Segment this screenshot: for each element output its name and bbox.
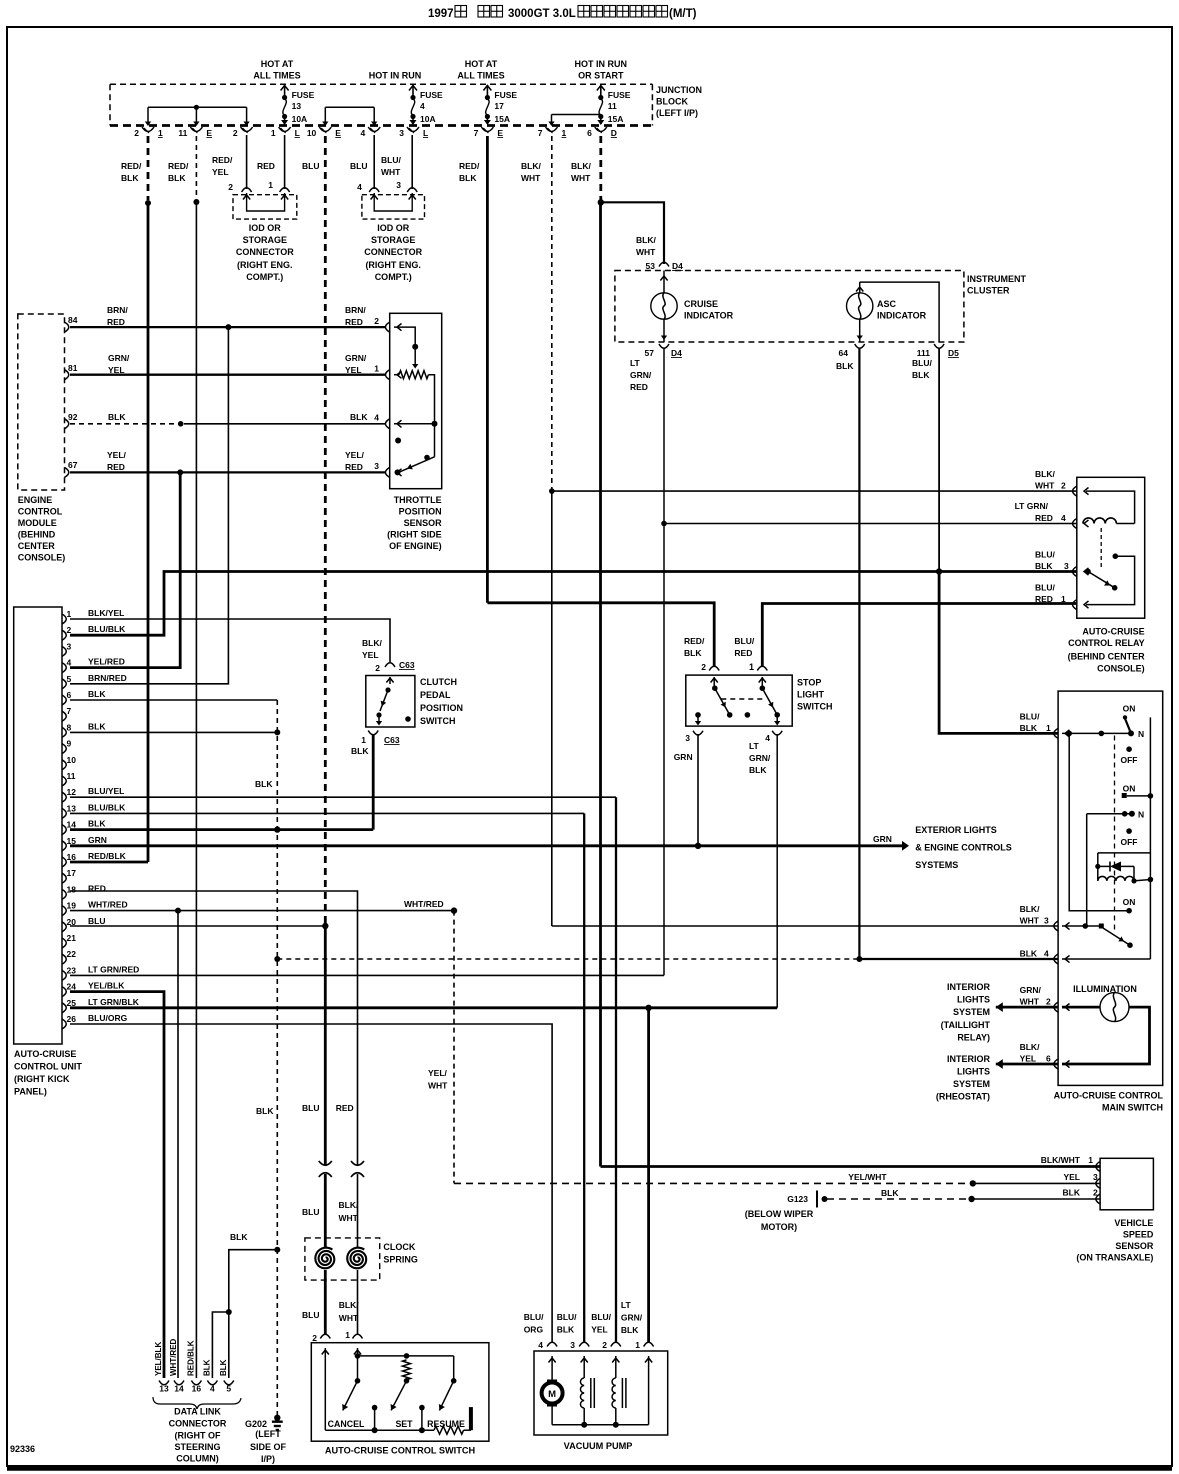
svg-text:4: 4 — [1061, 513, 1066, 523]
svg-text:ILLUMINATION: ILLUMINATION — [1073, 984, 1137, 994]
svg-text:BLK/: BLK/ — [362, 638, 382, 648]
svg-text:BLK: BLK — [1063, 1188, 1081, 1198]
svg-text:HOT IN RUN: HOT IN RUN — [369, 71, 422, 81]
svg-text:POSITION: POSITION — [399, 507, 442, 517]
stop light switch pin 2 — [684, 636, 719, 672]
wire label BLK/WHT 1 — [521, 161, 541, 183]
svg-text:IOD OR: IOD OR — [377, 223, 410, 233]
ACCU pin 1 (BLK/YEL) — [62, 608, 124, 624]
svg-text:25: 25 — [67, 998, 77, 1008]
wire label BLK/WHT 2 — [571, 161, 591, 183]
svg-text:IOD OR: IOD OR — [249, 223, 282, 233]
svg-text:16: 16 — [192, 1384, 202, 1394]
svg-text:84: 84 — [68, 315, 78, 325]
svg-text:OFF: OFF — [1121, 755, 1138, 765]
svg-text:STORAGE: STORAGE — [243, 235, 287, 245]
junction pin 7/E — [474, 127, 504, 138]
svg-text:4: 4 — [210, 1384, 215, 1394]
svg-text:INTERIOR: INTERIOR — [947, 982, 991, 992]
svg-text:LIGHTS: LIGHTS — [957, 1067, 990, 1077]
svg-text:YEL: YEL — [108, 365, 125, 375]
svg-text:SPEED: SPEED — [1123, 1229, 1154, 1239]
main switch left internal wire to ON contact — [1069, 733, 1135, 913]
ECM pin 92 — [65, 412, 78, 429]
svg-text:LIGHT: LIGHT — [797, 690, 824, 700]
svg-text:BLK/: BLK/ — [1020, 1042, 1040, 1052]
TPS internal wiper feed — [394, 327, 418, 368]
svg-text:CONNECTOR: CONNECTOR — [364, 247, 422, 257]
auto-cruise control main switch box — [1054, 691, 1164, 1112]
svg-text:BLU: BLU — [88, 916, 105, 926]
svg-text:BLK/YEL: BLK/YEL — [88, 608, 124, 618]
svg-text:15: 15 — [67, 836, 77, 846]
auto-cruise control switch box — [311, 1343, 489, 1456]
wire RED/BLK junction pin11/E down to DLC pin 16 — [193, 136, 199, 1378]
svg-text:CONNECTOR: CONNECTOR — [236, 247, 294, 257]
svg-text:THROTTLE: THROTTLE — [394, 495, 442, 505]
svg-text:BLOCK: BLOCK — [656, 97, 688, 107]
svg-text:AUTO-CRUISE CONTROL: AUTO-CRUISE CONTROL — [1054, 1091, 1164, 1101]
svg-text:1: 1 — [749, 662, 754, 672]
junction pin 4 — [360, 127, 380, 138]
svg-text:2: 2 — [233, 128, 238, 138]
svg-text:BLK: BLK — [836, 361, 854, 371]
svg-text:FUSE: FUSE — [292, 90, 315, 100]
ACCS pin 1 — [345, 1330, 362, 1356]
svg-text:BLU: BLU — [302, 1310, 319, 1320]
ACCU pin 4 (YEL/RED) — [62, 657, 125, 673]
ACCU pin 10 — [62, 755, 76, 770]
junction pin 6/D — [587, 127, 617, 138]
svg-text:LT GRN/BLK: LT GRN/BLK — [88, 997, 140, 1007]
svg-text:JUNCTION: JUNCTION — [656, 85, 702, 95]
wire RED/BLK junction pin2/1 down to ACCU pin 16 — [70, 136, 151, 862]
svg-text:7: 7 — [474, 128, 479, 138]
svg-text:RED: RED — [734, 648, 752, 658]
svg-text:COMPT.): COMPT.) — [246, 272, 283, 282]
svg-text:COLUMN): COLUMN) — [176, 1454, 219, 1464]
svg-text:BRN/: BRN/ — [107, 305, 128, 315]
ACCU pin 13 (BLU/BLK) — [62, 802, 126, 818]
svg-text:BLU: BLU — [302, 1103, 319, 1113]
svg-text:CONSOLE): CONSOLE) — [1097, 664, 1145, 674]
ACCU pin 25 (LT GRN/BLK) — [62, 997, 140, 1013]
svg-text:BLU/: BLU/ — [1035, 550, 1055, 560]
svg-text:1997: 1997 — [428, 8, 454, 20]
svg-text:SIDE OF: SIDE OF — [250, 1442, 287, 1452]
wire YEL/RED ECM 67 to TPS pin 3 and ACCU pin 4 — [70, 450, 386, 475]
svg-text:BLK: BLK — [1020, 949, 1038, 959]
svg-text:11: 11 — [178, 128, 187, 138]
wire LT GRN/RED cluster 57 to relay pin 4 and ACCU pin 23 — [70, 348, 1076, 975]
wire GRN/YEL ECM 81 to TPS pin 1 — [70, 353, 386, 375]
ACCU pin 6 (BLK) — [62, 689, 106, 705]
ACCU pin 24 (YEL/BLK) — [62, 981, 125, 997]
junction pin 2 (IOD feed) — [233, 127, 253, 138]
svg-text:SENSOR: SENSOR — [1115, 1241, 1154, 1251]
ECM pin 81 — [65, 363, 78, 380]
data link connector label — [169, 1407, 227, 1464]
hot-in-run-or-start label — [575, 59, 628, 81]
svg-text:17: 17 — [494, 101, 504, 111]
svg-text:(RIGHT KICK: (RIGHT KICK — [14, 1074, 70, 1084]
svg-text:ALL TIMES: ALL TIMES — [253, 71, 300, 81]
svg-text:10A: 10A — [420, 114, 436, 124]
svg-text:CONTROL: CONTROL — [18, 507, 63, 517]
svg-text:GRN/: GRN/ — [1020, 985, 1042, 995]
svg-text:2: 2 — [134, 128, 139, 138]
wire YEL/BLK ACCU pin24 to DLC pin 13 — [70, 992, 164, 1378]
svg-text:YEL: YEL — [345, 365, 362, 375]
svg-text:18: 18 — [67, 884, 77, 894]
svg-text:BLK: BLK — [351, 746, 369, 756]
svg-text:HOT IN RUN: HOT IN RUN — [575, 59, 628, 69]
svg-text:92336: 92336 — [10, 1444, 35, 1454]
wire BLU/BLK cluster 111 to BLU/BLK bus — [938, 348, 940, 572]
svg-text:WHT: WHT — [636, 247, 656, 257]
svg-text:STOP: STOP — [797, 678, 821, 688]
svg-text:CLUSTER: CLUSTER — [967, 286, 1010, 296]
wire label RED/BLK 3 — [459, 161, 480, 183]
svg-text:RED: RED — [257, 161, 275, 171]
svg-text:(ON TRANSAXLE): (ON TRANSAXLE) — [1076, 1253, 1153, 1263]
wire LT GRN/BLK ACCU pin25 to vacuum pump pin1 and stop light pin4 — [70, 734, 777, 1342]
TPS pin 2 — [385, 322, 401, 332]
data link connector pins — [154, 1338, 234, 1393]
svg-text:WHT: WHT — [428, 1081, 448, 1091]
stop light switch pin 3 — [674, 731, 703, 762]
svg-text:N: N — [1138, 809, 1144, 819]
svg-text:BLK: BLK — [621, 1325, 639, 1335]
svg-text:WHT/RED: WHT/RED — [88, 900, 128, 910]
svg-text:OR START: OR START — [578, 71, 624, 81]
svg-text:BLK: BLK — [202, 1359, 211, 1376]
junction block (left I/P) dashed box — [110, 84, 702, 125]
svg-text:7: 7 — [67, 706, 72, 716]
svg-text:BLU/: BLU/ — [734, 636, 754, 646]
svg-text:LT: LT — [749, 741, 760, 751]
svg-text:3: 3 — [1093, 1172, 1098, 1182]
interior lights (rheostat) arrow and label — [936, 1054, 1058, 1102]
wire YEL/RED vertical to ACCU pin 4 — [70, 472, 180, 667]
wire GRN ACCU pin15 to exterior lights arrow — [70, 834, 909, 851]
svg-text:PEDAL: PEDAL — [420, 690, 451, 700]
svg-text:DATA LINK: DATA LINK — [174, 1407, 221, 1417]
svg-text:RELAY): RELAY) — [957, 1033, 990, 1043]
junction block internal branch from fuse 11 — [548, 115, 600, 127]
svg-text:11: 11 — [608, 101, 617, 111]
main switch pin 1 (BLU/BLK) — [1020, 712, 1070, 739]
clock spring coil right — [347, 1248, 366, 1269]
svg-text:E: E — [335, 128, 341, 138]
stop light switch pin 1 — [734, 636, 767, 672]
ACCU pin 15 (GRN) — [62, 835, 107, 851]
svg-text:(LEFT I/P): (LEFT I/P) — [656, 108, 698, 118]
ECM pin 84 — [65, 315, 78, 332]
svg-text:2: 2 — [375, 663, 380, 673]
svg-text:3: 3 — [570, 1340, 575, 1350]
VSS pin 1 (BLK/WHT) — [1041, 1155, 1100, 1172]
svg-text:WHT: WHT — [339, 1213, 359, 1223]
fuse 13 (10A) — [281, 85, 315, 125]
svg-text:STORAGE: STORAGE — [371, 235, 415, 245]
svg-text:I/P): I/P) — [261, 1454, 275, 1464]
svg-text:2: 2 — [1093, 1188, 1098, 1198]
svg-text:BLK: BLK — [168, 173, 186, 183]
svg-text:N: N — [1138, 729, 1144, 739]
TPS pin 4 — [385, 419, 401, 429]
svg-text:HOT AT: HOT AT — [261, 59, 294, 69]
svg-text:21: 21 — [67, 933, 77, 943]
relay pin 1 (BLU/RED) — [1035, 583, 1089, 610]
svg-text:RED/: RED/ — [459, 161, 480, 171]
svg-text:HOT AT: HOT AT — [465, 59, 498, 69]
ACCS bottom rail and resume resistor — [325, 1407, 471, 1434]
svg-text:2: 2 — [1061, 481, 1066, 491]
svg-text:G123: G123 — [787, 1194, 808, 1204]
svg-text:(RHEOSTAT): (RHEOSTAT) — [936, 1092, 990, 1102]
wire BLU junction pin4 to IOD2 pin4 — [373, 135, 375, 189]
ACCU pin 8 (BLK) — [62, 721, 106, 737]
TPS wiper arm — [395, 438, 435, 476]
wire BLU/RED stop light pin1 to relay pin 1 — [762, 604, 1076, 667]
ground G202 — [245, 1415, 287, 1464]
main switch pin 4 internal wire — [1062, 958, 1150, 960]
svg-text:WHT: WHT — [1020, 916, 1040, 926]
svg-text:BRN/RED: BRN/RED — [88, 673, 127, 683]
svg-text:WHT: WHT — [1020, 997, 1040, 1007]
svg-text:BLK: BLK — [108, 412, 126, 422]
cluster pin 111/D5 — [917, 344, 959, 358]
svg-text:C63: C63 — [384, 735, 400, 745]
ACCU pin 14 (BLK) — [62, 819, 106, 835]
svg-text:ON: ON — [1123, 704, 1136, 714]
wire RED/YEL junction pin2 to IOD1 pin2 — [246, 135, 248, 189]
wire BLK/WHT junction pin7/1 to cruise relay pin 2 and main switch pin 3 — [549, 136, 1076, 926]
svg-text:(RIGHT OF: (RIGHT OF — [175, 1431, 221, 1441]
main switch pin 2 (GRN/WHT) — [1020, 985, 1070, 1012]
vacuum pump motor M — [542, 1380, 563, 1425]
svg-text:SWITCH: SWITCH — [797, 702, 833, 712]
hot-at-all-times label 1 — [253, 59, 300, 81]
svg-text:INDICATOR: INDICATOR — [684, 311, 734, 321]
vacuum pump solenoid coil 2 — [612, 1378, 626, 1425]
svg-text:VEHICLE: VEHICLE — [1114, 1218, 1153, 1228]
svg-text:SYSTEMS: SYSTEMS — [915, 860, 958, 870]
svg-text:2: 2 — [701, 662, 706, 672]
svg-text:OFF: OFF — [1121, 837, 1138, 847]
ACCS set switch resistor — [372, 1360, 414, 1433]
wire BLK/WHT junction pin6/D down to vehicle speed sensor pin 1 — [598, 136, 1100, 1167]
ACCU pin 5 (BRN/RED) — [62, 673, 127, 689]
svg-text:7: 7 — [538, 128, 543, 138]
relay pin 2 (BLK/WHT) — [1035, 469, 1089, 496]
svg-text:INSTRUMENT: INSTRUMENT — [967, 274, 1026, 284]
junction pin 11/E — [178, 127, 212, 138]
relay pin 3 (BLU/BLK) — [1035, 550, 1089, 577]
wire BRN/RED vertical to ACCU pin 5 — [70, 327, 228, 684]
svg-text:INDICATOR: INDICATOR — [877, 311, 927, 321]
ACCU pin 12 (BLU/YEL) — [62, 786, 124, 802]
svg-text:AUTO-CRUISE: AUTO-CRUISE — [14, 1049, 76, 1059]
svg-text:(RIGHT SIDE: (RIGHT SIDE — [387, 530, 442, 540]
wire BLU ACCU pin20 — [70, 925, 325, 927]
svg-text:3: 3 — [374, 461, 379, 471]
ECM pin 67 — [65, 460, 78, 477]
svg-text:BLK: BLK — [88, 689, 106, 699]
svg-text:15A: 15A — [494, 114, 510, 124]
svg-text:BLK: BLK — [557, 1325, 575, 1335]
cluster pin 64 — [839, 344, 865, 358]
ACCU pin 22 — [62, 949, 76, 964]
svg-text:SYSTEM: SYSTEM — [953, 1007, 990, 1017]
svg-text:BLU/BLK: BLU/BLK — [88, 624, 126, 634]
ACCU pin 9 — [62, 739, 72, 754]
svg-text:1: 1 — [158, 128, 163, 138]
ACCS resume switch — [419, 1356, 465, 1433]
wire GRN stop light pin3 down to GRN bus — [697, 734, 699, 846]
svg-text:1: 1 — [1046, 723, 1051, 733]
junction pin 3/L — [399, 127, 428, 138]
svg-text:BLK: BLK — [255, 779, 273, 789]
svg-text:4: 4 — [765, 733, 770, 743]
fuse 11 (15A) — [597, 85, 631, 125]
TPS pin-4 node — [394, 421, 438, 457]
svg-text:3: 3 — [1064, 561, 1069, 571]
svg-text:17: 17 — [67, 868, 77, 878]
svg-text:SENSOR: SENSOR — [404, 518, 443, 528]
svg-text:BLK: BLK — [1035, 561, 1053, 571]
svg-text:(RIGHT ENG.: (RIGHT ENG. — [365, 260, 421, 270]
svg-text:4: 4 — [360, 128, 365, 138]
svg-text:YEL: YEL — [212, 167, 229, 177]
svg-text:1: 1 — [67, 609, 72, 619]
vacuum pump box — [534, 1351, 668, 1451]
svg-text:BLK/: BLK/ — [339, 1300, 359, 1310]
svg-text:CONTROL UNIT: CONTROL UNIT — [14, 1062, 82, 1072]
ACCU pin 2 (BLU/BLK) — [62, 624, 126, 640]
wire label LT GRN/RED — [630, 358, 652, 392]
svg-text:CONNECTOR: CONNECTOR — [169, 1419, 227, 1429]
relay pin 4 (LT GRN/RED) — [1015, 501, 1089, 529]
svg-text:ALL TIMES: ALL TIMES — [457, 71, 504, 81]
svg-text:1: 1 — [1088, 1155, 1093, 1165]
svg-text:2: 2 — [228, 182, 233, 192]
svg-text:1: 1 — [361, 735, 366, 745]
svg-text:OF ENGINE): OF ENGINE) — [389, 541, 442, 551]
svg-text:ON: ON — [1123, 784, 1136, 794]
vacuum pump solenoid coil 1 — [580, 1378, 594, 1425]
relay coil — [1083, 491, 1135, 568]
wire RED / BLK-WHT clock spring section — [336, 1103, 364, 1335]
junction pin 7/1 — [538, 127, 567, 138]
svg-text:14: 14 — [174, 1384, 184, 1394]
wire label RED/YEL — [212, 155, 233, 177]
wire label BLU/BLK cluster 111 — [912, 358, 932, 380]
IOD or storage connector 2 (right eng compt) — [357, 180, 424, 282]
wire BLK G123 to VSS pin 2 — [827, 1188, 1100, 1202]
svg-text:3: 3 — [67, 641, 72, 651]
svg-text:10: 10 — [67, 755, 77, 765]
svg-text:RED/: RED/ — [684, 636, 705, 646]
clock spring dashed box — [305, 1238, 418, 1280]
svg-text:8: 8 — [67, 722, 72, 732]
relay switch contacts — [1085, 553, 1134, 604]
instrument cluster dashed box — [615, 271, 1027, 343]
svg-text:MODULE: MODULE — [18, 518, 57, 528]
svg-text:INTERIOR: INTERIOR — [947, 1054, 991, 1064]
wire BLK dashed ground bus to G202 — [255, 700, 277, 1418]
svg-text:3000GT 3.0L: 3000GT 3.0L — [508, 8, 576, 20]
svg-text:RED/BLK: RED/BLK — [186, 1340, 195, 1376]
svg-text:BLU/BLK: BLU/BLK — [88, 802, 126, 812]
stop light switch pin 4 — [749, 731, 782, 775]
svg-text:D4: D4 — [671, 348, 682, 358]
svg-text:AUTO-CRUISE CONTROL SWITCH: AUTO-CRUISE CONTROL SWITCH — [325, 1446, 476, 1456]
svg-text:LT: LT — [630, 358, 641, 368]
ACCU pin 23 (LT GRN/RED) — [62, 964, 139, 980]
ACCU pin 19 (WHT/RED) — [62, 900, 128, 916]
svg-text:26: 26 — [67, 1014, 77, 1024]
wire BLK/WHT branch to instrument cluster pin 53 — [601, 202, 683, 271]
svg-text:1: 1 — [374, 364, 379, 374]
svg-text:BLU/: BLU/ — [381, 155, 401, 165]
vacuum pump pin 1 (LT GRN/BLK) — [621, 1300, 654, 1425]
svg-text:19: 19 — [67, 901, 77, 911]
svg-text:AUTO-CRUISE: AUTO-CRUISE — [1082, 627, 1144, 637]
TPS pin 1 — [385, 370, 401, 380]
hot-at-all-times label 2 — [457, 59, 504, 81]
svg-text:GRN: GRN — [674, 752, 693, 762]
svg-text:BLK: BLK — [219, 1359, 228, 1376]
svg-text:92: 92 — [68, 412, 78, 422]
svg-text:ORG: ORG — [524, 1325, 544, 1335]
wire RED/BLK junction pin7/E to stop light switch pin 2 — [487, 136, 714, 666]
svg-text:3: 3 — [399, 128, 404, 138]
svg-text:CLUTCH: CLUTCH — [420, 677, 457, 687]
cluster pin 57/D4 — [645, 344, 683, 358]
svg-text:BLK: BLK — [88, 819, 106, 829]
svg-text:1: 1 — [635, 1340, 640, 1350]
svg-text:WHT: WHT — [339, 1313, 359, 1323]
svg-text:BLU/: BLU/ — [1020, 712, 1040, 722]
svg-text:ENGINE: ENGINE — [18, 495, 53, 505]
ACCS cancel switch — [328, 1356, 365, 1429]
wire label RED/BLK 1 — [121, 161, 142, 183]
svg-text:WHT/RED: WHT/RED — [169, 1338, 178, 1376]
svg-text:RED: RED — [336, 1103, 354, 1113]
svg-text:RED/: RED/ — [168, 161, 189, 171]
wire label BLU/WHT — [381, 155, 401, 177]
svg-text:1: 1 — [271, 128, 276, 138]
svg-text:YEL/: YEL/ — [345, 450, 365, 460]
TPS pin 3 — [385, 467, 401, 477]
clutch pedal position switch box — [366, 676, 463, 728]
svg-text:111: 111 — [917, 348, 931, 358]
ACCS internal bus — [355, 1353, 454, 1359]
svg-text:BLK: BLK — [121, 173, 139, 183]
cluster internal wire to pin 111 — [860, 282, 939, 342]
svg-text:14: 14 — [67, 820, 77, 830]
wire BLK dashed to main switch pin 4 — [274, 956, 859, 962]
wire BLU/ORG ACCU pin26 to vacuum pump pin 4 — [70, 1024, 552, 1342]
DLC brace — [153, 1397, 241, 1409]
svg-text:ON: ON — [1123, 897, 1136, 907]
svg-text:FUSE: FUSE — [608, 90, 631, 100]
svg-text:RED/: RED/ — [212, 155, 233, 165]
svg-text:FUSE: FUSE — [420, 90, 443, 100]
svg-text:BLU/: BLU/ — [557, 1312, 577, 1322]
